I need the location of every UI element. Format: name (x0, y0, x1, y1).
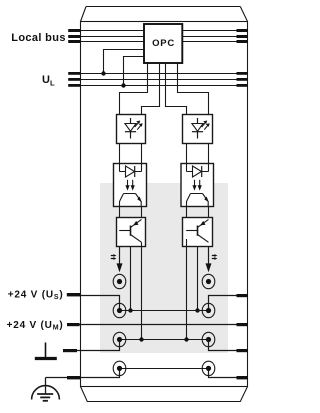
wire row3 to left ground edge (66, 340, 120, 351)
node row3 ch2 (184, 337, 188, 341)
wire UL line1 to OPC (104, 50, 145, 74)
node on UL line 3 (121, 83, 125, 87)
output arrow channel 2 (206, 247, 212, 273)
wire OPC output 2 (142, 63, 160, 115)
right bar row3 (237, 349, 249, 352)
row3 interconnect wire (120, 339, 209, 341)
OPC bus controller U1 (144, 24, 182, 63)
LED indicator box channel 2 (183, 115, 213, 144)
svg-text:+24 V (US): +24 V (US) (8, 290, 64, 302)
node on UL line 1 (101, 71, 105, 75)
+24V UM through line (67, 324, 248, 326)
wire LED1 to optocoupler1 left (119, 144, 121, 164)
terminal 1.4 (113, 361, 126, 375)
wire opto1 emitter to transistor1 (141, 207, 143, 220)
wire LED2 to optocoupler2 left (186, 144, 188, 164)
node row2 ch1 (128, 308, 132, 312)
optocoupler U2 channel 1 (114, 164, 147, 207)
module housing outline (81, 7, 248, 402)
earth electrode symbol PE (32, 378, 60, 401)
left bar ground (63, 349, 77, 352)
wire row3 to right edge (209, 340, 249, 351)
LED indicator box channel 1 (117, 115, 146, 144)
terminal 2.3 (202, 332, 215, 346)
UL supply lines (81, 74, 248, 86)
wire opto1 to transistor1 left (119, 207, 121, 218)
node row2 ch2 (195, 308, 199, 312)
svg-text:U: U (42, 74, 50, 86)
row2 interconnect wire (120, 310, 209, 312)
wire transistor1 collector feed to row2 (130, 247, 132, 311)
wire OPC output 4 (178, 63, 209, 115)
node row3 ch1 (139, 337, 143, 341)
shaded output section background (100, 183, 228, 353)
pulse symbol channel 1 (111, 254, 117, 260)
left bar +24V US (67, 293, 81, 296)
output transistor Q1 (117, 218, 146, 247)
output transistor Q2 (183, 218, 213, 247)
wire row4 to right edge (209, 369, 249, 378)
terminal 1.1 (113, 274, 126, 288)
wire transistor2 collector feed to row2 (197, 247, 199, 311)
svg-text:L: L (50, 79, 55, 88)
row4 interconnect wire (120, 368, 209, 370)
terminal 1.3 (113, 332, 126, 346)
UL left connector bars (68, 72, 81, 87)
terminal 1.2 (113, 303, 126, 317)
svg-text:OPC: OPC (152, 38, 175, 49)
wire LED2 to optocoupler2 right (208, 144, 210, 164)
right bar row4 (237, 376, 249, 379)
UL right connector bars (237, 72, 249, 87)
wire LED1 to optocoupler1 right (141, 144, 143, 164)
wire OPC output 3 (166, 63, 187, 115)
local bus left connector bars (68, 29, 81, 43)
ground symbol (35, 343, 57, 359)
left bar +24V UM (67, 323, 80, 326)
output arrow channel 1 (117, 247, 123, 273)
wire row2 to right edge (209, 296, 249, 311)
terminal 2.1 (202, 274, 215, 288)
optocoupler U3 channel 2 (181, 164, 214, 207)
right bar UM (237, 323, 249, 326)
wire transistor2 to row3 (186, 247, 188, 340)
wire UL line3 to OPC (124, 57, 145, 86)
left bar PE (67, 376, 81, 379)
wire transistor1 to row3 (141, 242, 143, 339)
terminal 2.4 (202, 361, 215, 375)
+24V US feed wire (67, 296, 120, 311)
wire opto2 to transistor2 left (186, 207, 188, 218)
right bar row2 (237, 294, 249, 297)
pulse symbol channel 2 (212, 254, 218, 260)
wire row4 to PE rail (46, 369, 120, 378)
local bus lines (81, 31, 248, 42)
svg-text:Local bus: Local bus (11, 32, 66, 44)
wire opto2 emitter to transistor2 (208, 207, 210, 220)
terminal 2.2 (202, 303, 215, 317)
local bus right connector bars (237, 29, 249, 43)
wire OPC output 1 (120, 63, 148, 115)
svg-text:+24 V (UM): +24 V (UM) (7, 320, 64, 332)
